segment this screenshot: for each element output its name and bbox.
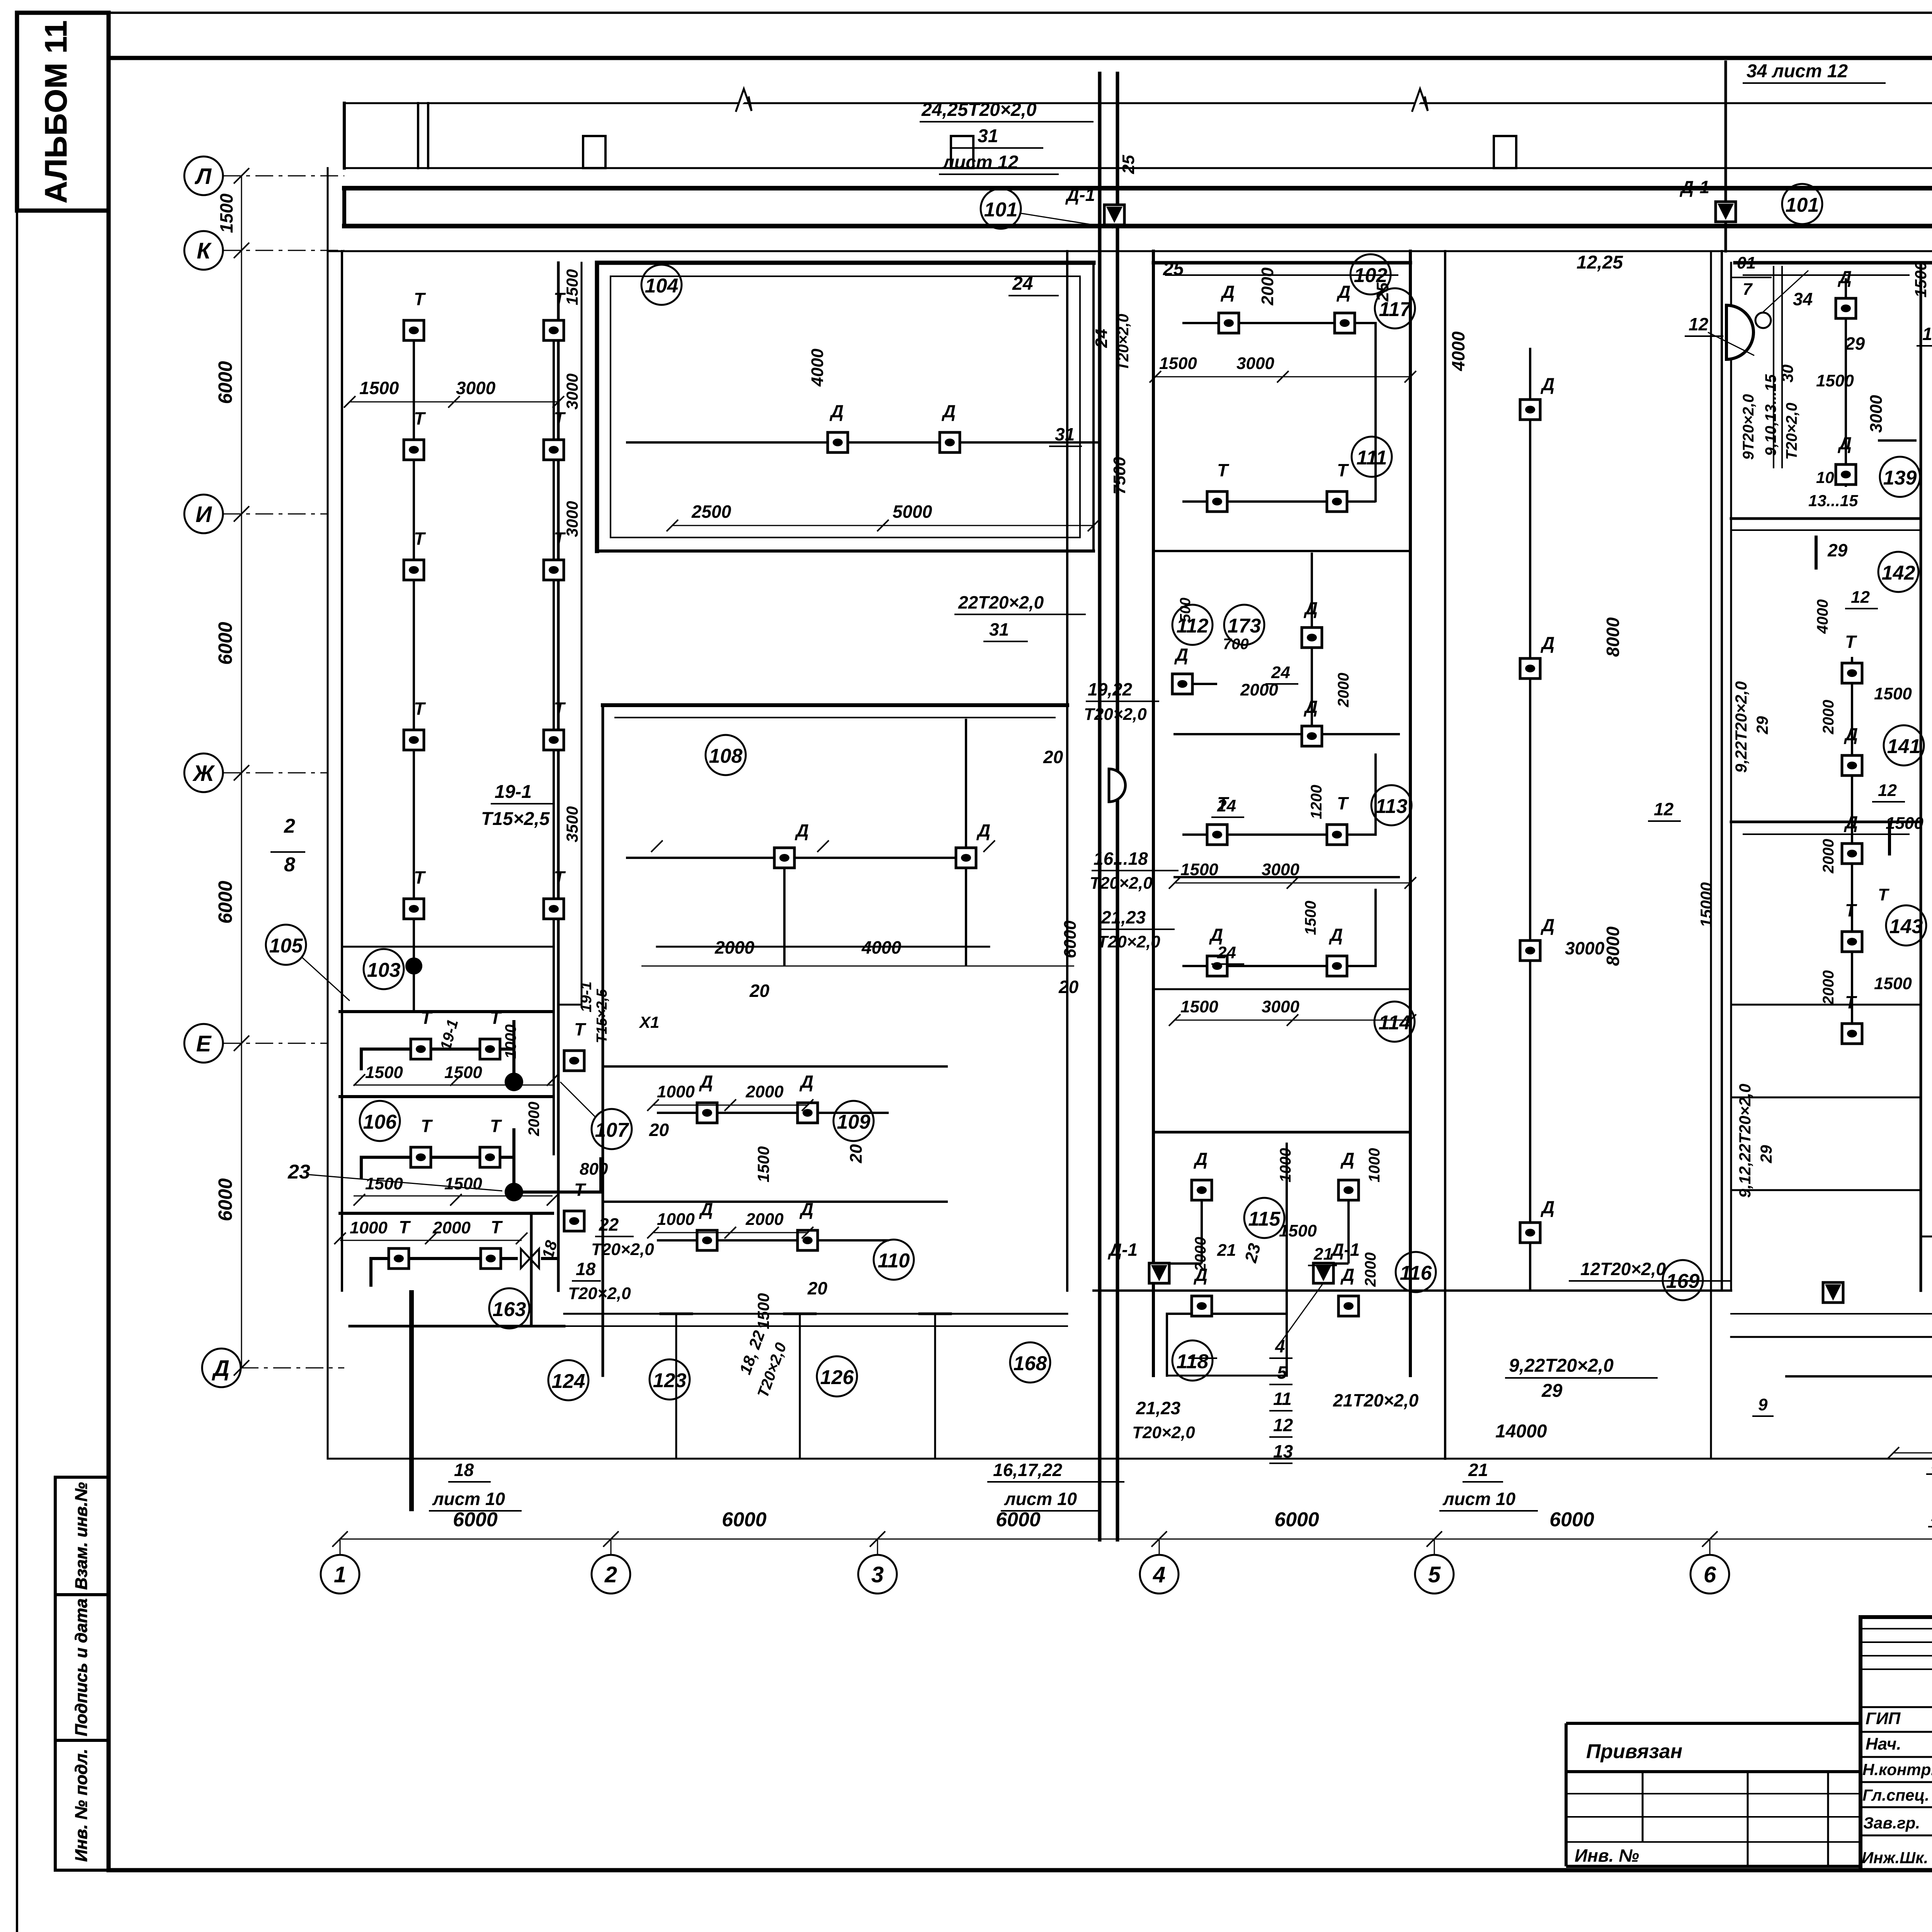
svg-text:800: 800 <box>580 1160 608 1179</box>
room label 111 <box>1352 437 1392 477</box>
dim slash ticks <box>334 371 1932 1459</box>
detector Д 108-1 <box>774 848 794 868</box>
half-round detector right riser <box>1726 305 1753 359</box>
title block left rows <box>1861 1707 1932 1835</box>
svg-text:1500: 1500 <box>1159 354 1197 373</box>
axis Ж dash-dot line <box>223 772 328 774</box>
svg-text:29: 29 <box>1845 333 1865 354</box>
room label 114 <box>1374 1002 1415 1042</box>
room 104 block left wall <box>595 263 599 551</box>
svg-text:124: 124 <box>552 1370 585 1393</box>
svg-text:5: 5 <box>1277 1362 1287 1383</box>
svg-text:2: 2 <box>284 815 295 837</box>
building left wall <box>327 168 329 1459</box>
svg-text:1500: 1500 <box>1180 997 1218 1016</box>
axis 3 circle <box>858 1555 897 1594</box>
svg-text:Д-1: Д-1 <box>1330 1240 1360 1260</box>
svg-text:21,23: 21,23 <box>1101 907 1146 927</box>
svg-text:Т: Т <box>414 289 426 309</box>
svg-text:108: 108 <box>709 745 743 767</box>
svg-text:лист 10: лист 10 <box>432 1489 505 1509</box>
room 163 box <box>350 1213 564 1326</box>
room label 107 <box>592 1109 632 1149</box>
corridor wall right of 103 <box>581 263 583 1005</box>
right block partition y3080 <box>1731 1189 1921 1191</box>
junction dot 2 <box>505 1073 523 1091</box>
room label 117 <box>1375 288 1415 328</box>
detector T 107b <box>564 1211 584 1231</box>
room label 105 <box>266 925 306 965</box>
right bottom corridor wall <box>1731 1336 1932 1338</box>
svg-text:9Т20×2,0: 9Т20×2,0 <box>1740 394 1757 460</box>
detector Д r1 <box>1836 298 1856 318</box>
room label 143 <box>1886 905 1926 946</box>
room 104 inner face <box>611 276 1080 537</box>
half-round detector room 108 <box>1109 769 1126 802</box>
svg-text:20: 20 <box>1058 977 1079 997</box>
detector T a4 <box>404 730 424 750</box>
svg-text:2: 2 <box>604 1562 617 1587</box>
svg-text:Л: Л <box>194 164 212 189</box>
svg-text:1000: 1000 <box>1277 1148 1294 1182</box>
wire room 109 <box>657 1112 889 1114</box>
svg-text:Т: Т <box>554 867 566 888</box>
svg-text:3000: 3000 <box>456 378 496 398</box>
leader lines small <box>1279 270 1808 1345</box>
detector T 111-2 <box>1327 492 1347 512</box>
svg-text:Д: Д <box>1303 697 1318 717</box>
detector T 113-1 <box>1207 825 1227 845</box>
room 139 inner door posts <box>1816 537 1889 854</box>
room 114 divider <box>1153 988 1410 990</box>
svg-text:20: 20 <box>649 1120 669 1140</box>
svg-text:9,22Т20×2,0: 9,22Т20×2,0 <box>1509 1355 1614 1376</box>
room label 101 right <box>1782 184 1822 224</box>
room 118 box more walls <box>1167 1314 1287 1376</box>
svg-text:Д: Д <box>1837 267 1852 287</box>
svg-text:Т20×2,0: Т20×2,0 <box>1115 314 1132 371</box>
detector Д 104-1 <box>828 432 848 452</box>
wire trunk right corridor <box>1721 251 1723 1291</box>
svg-text:2000: 2000 <box>1820 700 1837 735</box>
svg-text:24: 24 <box>1217 943 1236 962</box>
svg-text:2000: 2000 <box>1362 1252 1379 1287</box>
svg-text:Т15×2,5: Т15×2,5 <box>481 809 550 829</box>
svg-text:4000: 4000 <box>1814 599 1831 634</box>
svg-text:3000: 3000 <box>1262 997 1299 1016</box>
pilaster 2 <box>951 136 973 168</box>
svg-text:19-1: 19-1 <box>578 981 595 1012</box>
valve Д-1 central <box>1104 205 1124 225</box>
wire room 102 <box>1182 323 1376 502</box>
svg-text:19,22: 19,22 <box>1088 679 1133 699</box>
svg-text:142: 142 <box>1882 562 1915 584</box>
svg-text:Взам. инв.№: Взам. инв.№ <box>72 1482 91 1590</box>
svg-text:1500: 1500 <box>444 1063 482 1082</box>
axis 4 circle <box>1140 1555 1179 1594</box>
detector Д 110-2 <box>798 1230 818 1250</box>
detector Д 115-2 <box>1338 1180 1359 1200</box>
detector Д 115-1 <box>1192 1180 1212 1200</box>
room 108 interior divider <box>657 946 989 948</box>
svg-text:Д-1: Д-1 <box>1679 177 1709 197</box>
wire room 110 <box>657 1239 889 1242</box>
detector T rb1 <box>1842 663 1862 683</box>
detector Д corridor2 <box>1520 658 1540 679</box>
svg-text:30: 30 <box>1778 364 1796 383</box>
detector Д 108-2 <box>956 848 976 868</box>
svg-text:Ж: Ж <box>192 761 215 786</box>
svg-text:3000: 3000 <box>563 501 581 537</box>
svg-text:2000: 2000 <box>714 937 755 957</box>
svg-text:12: 12 <box>1922 324 1932 344</box>
svg-text:3000: 3000 <box>1565 938 1605 958</box>
detector T 106-2 <box>480 1147 500 1167</box>
svg-text:12: 12 <box>1273 1415 1293 1435</box>
svg-text:Д: Д <box>1328 925 1343 945</box>
svg-text:18: 18 <box>576 1259 596 1279</box>
underlines for notes <box>920 122 1094 174</box>
svg-text:12: 12 <box>1689 314 1709 334</box>
svg-text:6000: 6000 <box>996 1509 1041 1531</box>
svg-text:Т: Т <box>574 1019 587 1039</box>
central rooms left wall <box>1152 251 1155 1376</box>
svg-text:Т20×2,0: Т20×2,0 <box>1783 403 1800 460</box>
detector Д rb2 <box>1842 755 1862 776</box>
svg-text:К: К <box>197 238 212 264</box>
building top edge wall <box>344 102 1932 104</box>
svg-text:Т: Т <box>414 867 426 888</box>
top break mark <box>736 89 752 111</box>
room 110 partition <box>603 1201 947 1203</box>
corridor band left cap <box>342 188 346 226</box>
svg-text:3: 3 <box>871 1562 884 1587</box>
axis Д circle <box>202 1349 241 1387</box>
svg-text:8000: 8000 <box>1603 926 1623 966</box>
svg-text:лист 10: лист 10 <box>1004 1489 1077 1509</box>
pilaster 1 <box>583 136 605 168</box>
svg-text:24: 24 <box>1012 274 1033 294</box>
detector T b1 <box>544 320 564 340</box>
room 102 inner face <box>1166 274 1398 276</box>
svg-text:Т: Т <box>414 699 426 719</box>
bottom axis dimension line <box>340 1539 1932 1540</box>
svg-text:13: 13 <box>1273 1441 1293 1461</box>
svg-text:Инв. №: Инв. № <box>1575 1845 1639 1866</box>
svg-text:1500: 1500 <box>1302 901 1319 935</box>
svg-text:9,22Т20×2,0: 9,22Т20×2,0 <box>1732 681 1750 773</box>
detector T 107 <box>564 1051 584 1071</box>
building bottom wall <box>328 1458 1932 1460</box>
svg-text:20: 20 <box>749 981 770 1001</box>
svg-text:Т15×2,5: Т15×2,5 <box>594 989 610 1043</box>
svg-text:Д: Д <box>799 1071 813 1092</box>
svg-text:20: 20 <box>847 1144 866 1163</box>
svg-text:16,17,22: 16,17,22 <box>993 1460 1062 1480</box>
axis K corridor wall <box>328 250 1932 252</box>
privyazan box <box>1566 1723 1861 1866</box>
wire room 104 <box>626 441 1100 444</box>
svg-text:8000: 8000 <box>1603 617 1623 657</box>
svg-text:1000: 1000 <box>502 1024 519 1059</box>
svg-text:29: 29 <box>1541 1381 1563 1401</box>
svg-text:Д: Д <box>1303 598 1318 618</box>
svg-text:1500: 1500 <box>216 193 236 233</box>
svg-text:Зав.гр.: Зав.гр. <box>1863 1814 1920 1832</box>
svg-text:1500: 1500 <box>1816 371 1854 390</box>
svg-text:139: 139 <box>1883 467 1917 489</box>
room 103 right wall <box>557 263 560 1291</box>
svg-text:114: 114 <box>1379 1012 1411 1034</box>
svg-text:2000: 2000 <box>745 1210 784 1229</box>
svg-text:3000: 3000 <box>1867 395 1886 433</box>
svg-text:21: 21 <box>1313 1245 1333 1264</box>
svg-text:18: 18 <box>454 1460 474 1480</box>
svg-text:Т: Т <box>490 1008 502 1028</box>
svg-text:Д: Д <box>794 820 809 840</box>
room label 124 <box>548 1360 588 1400</box>
svg-text:111: 111 <box>1356 447 1387 469</box>
wire room 113 <box>1182 753 1376 835</box>
svg-text:Привязан: Привязан <box>1586 1740 1682 1763</box>
room 109 partition <box>603 1065 947 1068</box>
svg-text:20: 20 <box>1043 747 1063 767</box>
left axis dimension line <box>241 176 242 1368</box>
svg-text:9,10,13...15: 9,10,13...15 <box>1762 374 1779 456</box>
detector Д 114-2 <box>1327 956 1347 976</box>
svg-text:3500: 3500 <box>563 806 581 842</box>
svg-text:109: 109 <box>837 1111 871 1133</box>
svg-text:101: 101 <box>984 199 1018 221</box>
detector T a5 <box>404 899 424 919</box>
wire trunk B room 103 <box>553 321 555 1155</box>
detector T 106-1 <box>411 1147 431 1167</box>
svg-text:Д: Д <box>1340 1149 1354 1169</box>
svg-text:Т: Т <box>421 1116 433 1136</box>
room label 112 <box>1172 605 1213 645</box>
svg-text:2000: 2000 <box>1192 1237 1209 1272</box>
detector Д 112-1 <box>1172 674 1192 694</box>
detector Д rb3 <box>1842 844 1862 864</box>
svg-text:1500: 1500 <box>1874 684 1912 703</box>
wire bottom corridor <box>1785 1375 1932 1378</box>
svg-text:8: 8 <box>284 854 295 876</box>
svg-text:4000: 4000 <box>1448 331 1468 371</box>
room label 118 <box>1172 1340 1213 1381</box>
svg-text:1000: 1000 <box>350 1218 388 1237</box>
svg-text:12Т20×2,0: 12Т20×2,0 <box>1580 1259 1666 1279</box>
svg-text:Д: Д <box>1220 282 1235 302</box>
svg-text:Т: Т <box>414 408 426 429</box>
room 108 top wall <box>603 703 1067 707</box>
room label 106 <box>360 1101 400 1141</box>
svg-text:12: 12 <box>1851 588 1870 607</box>
svg-text:Е: Е <box>196 1031 212 1056</box>
svg-text:Т: Т <box>554 408 566 429</box>
detector T b5 <box>544 899 564 919</box>
room label 173 <box>1224 605 1264 645</box>
detector T a3 <box>404 560 424 580</box>
svg-text:143: 143 <box>1889 915 1923 938</box>
svg-text:25: 25 <box>1373 282 1392 302</box>
detector Д 112-2 <box>1302 628 1322 648</box>
room label 168 <box>1010 1342 1050 1383</box>
junction dot 1 <box>405 957 422 975</box>
central rooms right wall <box>1409 251 1412 1376</box>
right mid block wall a <box>1920 263 1922 1291</box>
svg-text:Д: Д <box>1844 724 1858 744</box>
svg-text:12: 12 <box>1654 799 1674 819</box>
wire room 111 <box>1182 553 1312 746</box>
svg-text:Т: Т <box>414 529 426 549</box>
room label 141 <box>1884 725 1924 765</box>
svg-text:Д-1: Д-1 <box>1107 1240 1138 1260</box>
svg-text:6000: 6000 <box>214 361 236 404</box>
right block partition y1390 <box>1731 517 1921 520</box>
rooms 105 106 middle wall <box>340 1095 553 1098</box>
svg-text:АЛЬБОМ 11: АЛЬБОМ 11 <box>39 20 73 204</box>
svg-text:3000: 3000 <box>1262 860 1299 879</box>
svg-text:2000: 2000 <box>432 1218 471 1237</box>
room label 108 <box>706 735 746 775</box>
room label 139 <box>1880 457 1920 497</box>
detector Д 115-3 <box>1192 1296 1212 1316</box>
svg-text:Н.контр.: Н.контр. <box>1862 1760 1932 1779</box>
room 104 top wall <box>597 261 1094 265</box>
svg-text:1200: 1200 <box>1308 785 1325 819</box>
svg-text:24: 24 <box>1217 796 1236 815</box>
inner wall right of 103 low <box>558 1004 582 1006</box>
detector Д 102-1 <box>1219 313 1239 333</box>
svg-text:Д: Д <box>1209 925 1223 945</box>
axis Е dash-dot line <box>223 1043 328 1044</box>
svg-text:1500: 1500 <box>754 1293 772 1329</box>
svg-text:Гл.спец.: Гл.спец. <box>1862 1786 1929 1804</box>
svg-text:168: 168 <box>1014 1352 1047 1375</box>
left margin stack box 3 <box>55 1740 109 1870</box>
pilaster 3 <box>1494 136 1516 168</box>
svg-text:6000: 6000 <box>1549 1509 1594 1531</box>
svg-text:14000: 14000 <box>1495 1421 1547 1442</box>
svg-text:2000: 2000 <box>1820 839 1837 874</box>
room label 109 <box>833 1101 874 1141</box>
wall left of central shaft <box>1066 251 1068 1291</box>
svg-text:21,23: 21,23 <box>1136 1398 1181 1418</box>
detector T a2 <box>404 440 424 460</box>
axis 6 circle <box>1690 1555 1729 1594</box>
svg-text:1500: 1500 <box>754 1146 772 1182</box>
svg-text:01: 01 <box>1737 253 1756 272</box>
right corridor wall b <box>1730 263 1732 1291</box>
svg-text:Т: Т <box>1217 460 1230 480</box>
detector Д corridor3 <box>1520 940 1540 961</box>
svg-text:Д: Д <box>1340 1265 1354 1285</box>
bottom strip door caps <box>661 1313 951 1315</box>
room 113 divider <box>1175 876 1399 878</box>
central riser shaft left line <box>1098 73 1102 1540</box>
svg-text:22Т20×2,0: 22Т20×2,0 <box>958 592 1044 612</box>
right corridor wall a <box>1710 251 1712 1459</box>
svg-text:21: 21 <box>1217 1241 1236 1260</box>
svg-text:Д: Д <box>1540 374 1554 394</box>
svg-text:Д: Д <box>699 1071 713 1092</box>
svg-text:Т: Т <box>1845 992 1857 1012</box>
room label 102 <box>1350 254 1391 294</box>
axis И circle <box>184 495 223 533</box>
wire right block col a <box>1851 657 1853 1043</box>
svg-text:19-1: 19-1 <box>495 782 532 802</box>
svg-text:Т: Т <box>1845 632 1857 652</box>
room label 169 <box>1663 1260 1703 1300</box>
right block partition y2127 <box>1731 821 1921 823</box>
svg-text:6000: 6000 <box>453 1509 498 1531</box>
svg-text:1500: 1500 <box>563 269 581 305</box>
svg-text:Т: Т <box>554 699 566 719</box>
axis 2 circle <box>592 1555 630 1594</box>
valve Д-1 bottomright <box>1823 1282 1843 1303</box>
wire room 114 <box>1182 889 1376 966</box>
room label 142 <box>1878 552 1918 592</box>
axis Л dash-dot line <box>223 175 344 177</box>
right block inner lines <box>1743 275 1909 834</box>
detector T 113-2 <box>1327 825 1347 845</box>
svg-text:лист 10: лист 10 <box>1442 1489 1516 1509</box>
room label 113 <box>1371 785 1412 825</box>
svg-text:Т20×2,0: Т20×2,0 <box>1084 705 1147 724</box>
axis Е circle <box>184 1024 223 1063</box>
junction dot 3 <box>505 1183 523 1201</box>
svg-text:Д: Д <box>211 1356 230 1381</box>
bottom strip room walls <box>676 1314 935 1459</box>
svg-text:110: 110 <box>878 1250 910 1272</box>
butterfly symbol <box>521 1249 539 1268</box>
svg-text:Д: Д <box>1540 915 1554 935</box>
right block top wall <box>1735 261 1932 265</box>
detector Д r2 <box>1836 464 1856 485</box>
svg-text:21Т20×2,0: 21Т20×2,0 <box>1333 1390 1419 1410</box>
svg-text:4: 4 <box>1153 1562 1165 1587</box>
svg-text:Инж.Шк.: Инж.Шк. <box>1862 1849 1928 1867</box>
room 102 top wall <box>1153 261 1410 265</box>
detector Д 109-2 <box>798 1103 818 1123</box>
svg-text:Д: Д <box>1540 633 1554 653</box>
svg-text:31: 31 <box>989 619 1009 639</box>
axis 5 circle <box>1415 1555 1454 1594</box>
svg-text:4000: 4000 <box>861 937 901 957</box>
wall under top strip <box>344 167 1932 169</box>
room label 104 <box>641 265 682 305</box>
svg-text:25: 25 <box>1119 155 1138 174</box>
room 118 box walls <box>1167 1314 1287 1376</box>
axis Д dash-dot line <box>241 1367 344 1369</box>
wire room 102 T row <box>1182 500 1376 503</box>
svg-text:Т20×2,0: Т20×2,0 <box>1090 874 1153 893</box>
svg-text:1500: 1500 <box>359 378 399 398</box>
svg-text:6000: 6000 <box>722 1509 767 1531</box>
svg-text:1000: 1000 <box>1366 1148 1383 1182</box>
svg-text:15000: 15000 <box>1697 882 1715 927</box>
svg-text:2000: 2000 <box>526 1102 543 1136</box>
room 138 wall <box>1921 1236 1932 1238</box>
album box top-left <box>17 13 109 211</box>
svg-text:141: 141 <box>1887 735 1921 758</box>
svg-text:5000: 5000 <box>893 502 932 522</box>
top strip door posts <box>418 103 428 168</box>
svg-text:1500: 1500 <box>1279 1221 1317 1240</box>
svg-text:12: 12 <box>1878 781 1897 800</box>
svg-text:Инв. № подл.: Инв. № подл. <box>72 1749 91 1862</box>
room label 103 <box>364 949 404 989</box>
